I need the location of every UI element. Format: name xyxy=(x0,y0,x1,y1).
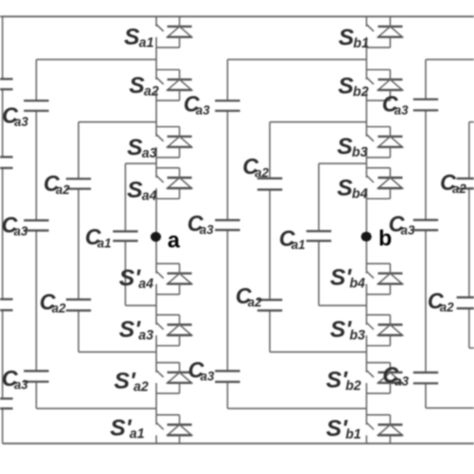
value label Cc3 bottom xyxy=(383,363,409,389)
svg-text:a2: a2 xyxy=(52,301,66,315)
node b (junction dot) xyxy=(361,232,372,242)
antiparallel diode of Sb'2 xyxy=(367,363,403,394)
value label Cb1 xyxy=(279,226,305,252)
label Sb3 xyxy=(337,133,368,160)
switch Sa'3 xyxy=(157,323,164,330)
antiparallel diode of Sa'3 xyxy=(156,315,192,346)
switch Sa'4 xyxy=(157,272,164,279)
wire: leg a outer chain lower tap xyxy=(36,408,156,410)
value label Ca2 bottom xyxy=(40,289,66,315)
switch Sb1 xyxy=(367,25,374,32)
svg-text:a3: a3 xyxy=(394,104,408,118)
wire: bottom DC rail xyxy=(3,443,474,445)
value label Ca2 top xyxy=(44,171,70,197)
wire: leg b outer chain lower tap xyxy=(228,408,367,410)
value label Cb2 bottom xyxy=(236,283,262,309)
switch Sb'4 xyxy=(367,272,374,279)
label S'b4 xyxy=(330,264,366,291)
label S'a1 xyxy=(110,414,144,441)
svg-text:b1: b1 xyxy=(346,426,362,441)
antiparallel diode of Sa4 xyxy=(156,168,192,199)
wire: leg b inner chain column xyxy=(318,164,320,306)
antiparallel diode of Sa1 xyxy=(156,17,192,48)
label node b xyxy=(379,226,392,251)
label S'b3 xyxy=(330,316,366,343)
value label Ca3 middle xyxy=(2,213,28,239)
value label Cb3 middle xyxy=(187,211,213,237)
svg-text:a2: a2 xyxy=(255,166,269,180)
capacitor Ca1 xyxy=(113,231,138,241)
wire: leg c outer chain (edge-clipped) column xyxy=(425,60,427,409)
wire: leg c outer chain (edge-clipped) lower tap xyxy=(426,407,474,409)
svg-text:a2: a2 xyxy=(440,300,454,314)
antiparallel diode of Sb1 xyxy=(367,17,403,48)
svg-text:a3: a3 xyxy=(401,224,415,238)
svg-text:S: S xyxy=(127,176,143,202)
svg-text:S: S xyxy=(129,72,145,98)
label Sa4 xyxy=(127,176,157,203)
switch Sa'2 xyxy=(157,371,164,378)
capacitor Cc3 (middle) xyxy=(413,220,438,230)
svg-text:b: b xyxy=(379,226,392,251)
svg-text:a3: a3 xyxy=(200,369,214,383)
wire: leg b main column xyxy=(366,17,368,444)
label S'a4 xyxy=(119,264,154,291)
capacitor Cc2 (top, edge-clipped) xyxy=(457,179,474,189)
svg-text:a: a xyxy=(168,228,181,253)
wire: leg a inner chain lower tap xyxy=(125,305,156,307)
svg-text:b3: b3 xyxy=(350,327,366,342)
label Sb1 xyxy=(338,24,369,51)
switch Sa'1 xyxy=(157,423,164,430)
node a (junction dot) xyxy=(151,232,162,242)
antiparallel diode of Sa'1 xyxy=(156,415,192,444)
wire: leg a middle chain lower tap xyxy=(79,351,157,353)
svg-text:a1: a1 xyxy=(139,35,154,50)
switch Sa2 xyxy=(157,78,164,85)
switch Sb3 xyxy=(367,135,374,142)
label node a xyxy=(168,228,181,253)
svg-text:a2: a2 xyxy=(248,295,262,309)
svg-text:S: S xyxy=(124,23,140,49)
antiparallel diode of Sb3 xyxy=(367,127,403,158)
capacitor Cb2 (bottom) xyxy=(257,300,282,311)
antiparallel diode of Sa'4 xyxy=(156,264,192,295)
capacitor Ca3 (bottom) xyxy=(24,371,49,382)
switch Sb'2 xyxy=(367,371,374,378)
capacitor Cdc4 (DC-link, edge-clipped) xyxy=(0,399,13,409)
wire: leg a main column xyxy=(155,17,157,444)
value label Cc2 bottom xyxy=(428,288,454,314)
svg-text:a3: a3 xyxy=(200,223,214,237)
value label Ca3 bottom xyxy=(2,366,28,392)
capacitor Cc3 (top) xyxy=(413,99,438,110)
switch Sb4 xyxy=(367,176,374,183)
svg-text:b2: b2 xyxy=(353,84,369,99)
label Sb2 xyxy=(338,72,369,99)
svg-text:a3: a3 xyxy=(395,375,409,389)
svg-text:a3: a3 xyxy=(142,145,157,160)
capacitor Cc3 (bottom) xyxy=(413,373,438,384)
wire: leg a outer chain upper tap xyxy=(36,59,156,61)
value label Cc2 top xyxy=(440,170,466,196)
svg-text:b2: b2 xyxy=(346,378,362,393)
svg-text:a3: a3 xyxy=(196,104,210,118)
switch Sa3 xyxy=(157,135,164,142)
switch Sb'1 xyxy=(367,423,374,430)
label S'a2 xyxy=(114,367,149,394)
capacitor Cb3 (bottom) xyxy=(215,371,240,382)
wire: leg c middle chain upper tap xyxy=(469,121,474,123)
wire: leg c middle chain column xyxy=(468,122,470,348)
svg-text:a2: a2 xyxy=(134,379,149,394)
svg-text:a3: a3 xyxy=(14,225,28,239)
wire: leg a inner chain column xyxy=(124,164,126,306)
wire: leg b outer chain upper tap xyxy=(228,59,367,61)
svg-text:b4: b4 xyxy=(350,275,366,290)
label S'b2 xyxy=(326,366,362,393)
antiparallel diode of Sb'3 xyxy=(367,315,403,346)
wire: leg b middle chain lower tap xyxy=(270,351,367,353)
capacitor Ca2 (bottom) xyxy=(66,300,91,311)
svg-text:a1: a1 xyxy=(291,238,305,252)
wire: leg a middle chain upper tap xyxy=(79,121,157,123)
svg-text:a3: a3 xyxy=(14,115,28,129)
label Sa2 xyxy=(129,72,159,99)
svg-text:b1: b1 xyxy=(353,35,369,50)
svg-text:S: S xyxy=(337,174,353,200)
capacitor Cb3 (middle) xyxy=(215,220,240,230)
wire: top DC rail xyxy=(0,16,474,18)
value label Cc3 top xyxy=(382,92,408,118)
switch Sb'3 xyxy=(367,323,374,330)
capacitor Cb3 (top) xyxy=(215,101,240,111)
capacitor Cdc3 (DC-link, edge-clipped) xyxy=(0,299,13,310)
wire: leg b middle chain upper tap xyxy=(270,121,367,123)
wire: leg c outer chain (edge-clipped) upper tap xyxy=(426,59,474,61)
antiparallel diode of Sa3 xyxy=(156,127,192,158)
capacitor Cdc2 (DC-link, edge-clipped) xyxy=(0,157,13,168)
svg-text:a3: a3 xyxy=(14,378,28,392)
capacitor Cb1 xyxy=(306,231,331,241)
svg-text:b4: b4 xyxy=(352,186,368,201)
capacitor Ca2 (top) xyxy=(66,179,91,189)
antiparallel diode of Sb'1 xyxy=(367,415,403,444)
svg-text:a1: a1 xyxy=(130,426,145,441)
capacitor Cdc1 (DC-link, edge-clipped) xyxy=(0,79,13,89)
wire: leg c middle chain lower tap xyxy=(469,347,474,349)
svg-text:S: S xyxy=(338,24,354,50)
wire: leg a inner chain upper tap xyxy=(125,163,156,165)
svg-text:a4: a4 xyxy=(139,276,154,291)
value label Cb3 bottom xyxy=(188,357,214,383)
antiparallel diode of Sb2 xyxy=(367,70,403,101)
value label Cc3 middle xyxy=(389,212,415,238)
wire: leg b outer chain column xyxy=(227,60,229,409)
label Sb4 xyxy=(337,174,368,201)
label S'a3 xyxy=(119,316,154,343)
capacitor Cc2 (bottom, edge-clipped) xyxy=(457,297,474,308)
switch Sa4 xyxy=(157,176,164,183)
antiparallel diode of Sb4 xyxy=(367,168,403,199)
antiparallel diode of Sa'2 xyxy=(156,363,192,394)
label Sa3 xyxy=(127,134,157,161)
switch Sa1 xyxy=(157,25,164,32)
wire: leg b inner chain lower tap xyxy=(319,305,367,307)
capacitor Ca3 (top) xyxy=(24,101,49,111)
svg-text:a2: a2 xyxy=(56,183,70,197)
wire: leg a outer chain column xyxy=(35,60,37,409)
svg-text:a2: a2 xyxy=(452,182,466,196)
label Sa1 xyxy=(124,23,154,50)
svg-text:S: S xyxy=(337,133,353,159)
svg-text:b3: b3 xyxy=(352,144,368,159)
capacitor Cb2 (top) xyxy=(257,178,282,189)
label S'b1 xyxy=(326,415,361,442)
antiparallel diode of Sa2 xyxy=(156,70,192,101)
svg-text:a4: a4 xyxy=(142,188,157,203)
antiparallel diode of Sb'4 xyxy=(367,264,403,295)
svg-text:a2: a2 xyxy=(144,83,159,98)
svg-text:a1: a1 xyxy=(97,236,111,250)
value label Ca3 top xyxy=(2,103,28,129)
wire: leg b middle chain column xyxy=(269,122,271,352)
svg-text:S: S xyxy=(127,134,143,160)
wire: leg b inner chain upper tap xyxy=(319,163,367,165)
wire: leg a middle chain column xyxy=(78,122,80,352)
svg-text:S: S xyxy=(338,72,354,98)
value label Ca1 xyxy=(85,224,111,250)
value label Cb3 top xyxy=(184,92,210,118)
capacitor Ca3 (middle) xyxy=(24,220,49,230)
svg-text:a3: a3 xyxy=(139,327,154,342)
wire: left DC-link rail xyxy=(2,17,4,444)
switch Sb2 xyxy=(367,78,374,85)
value label Cb2 top xyxy=(243,154,269,180)
